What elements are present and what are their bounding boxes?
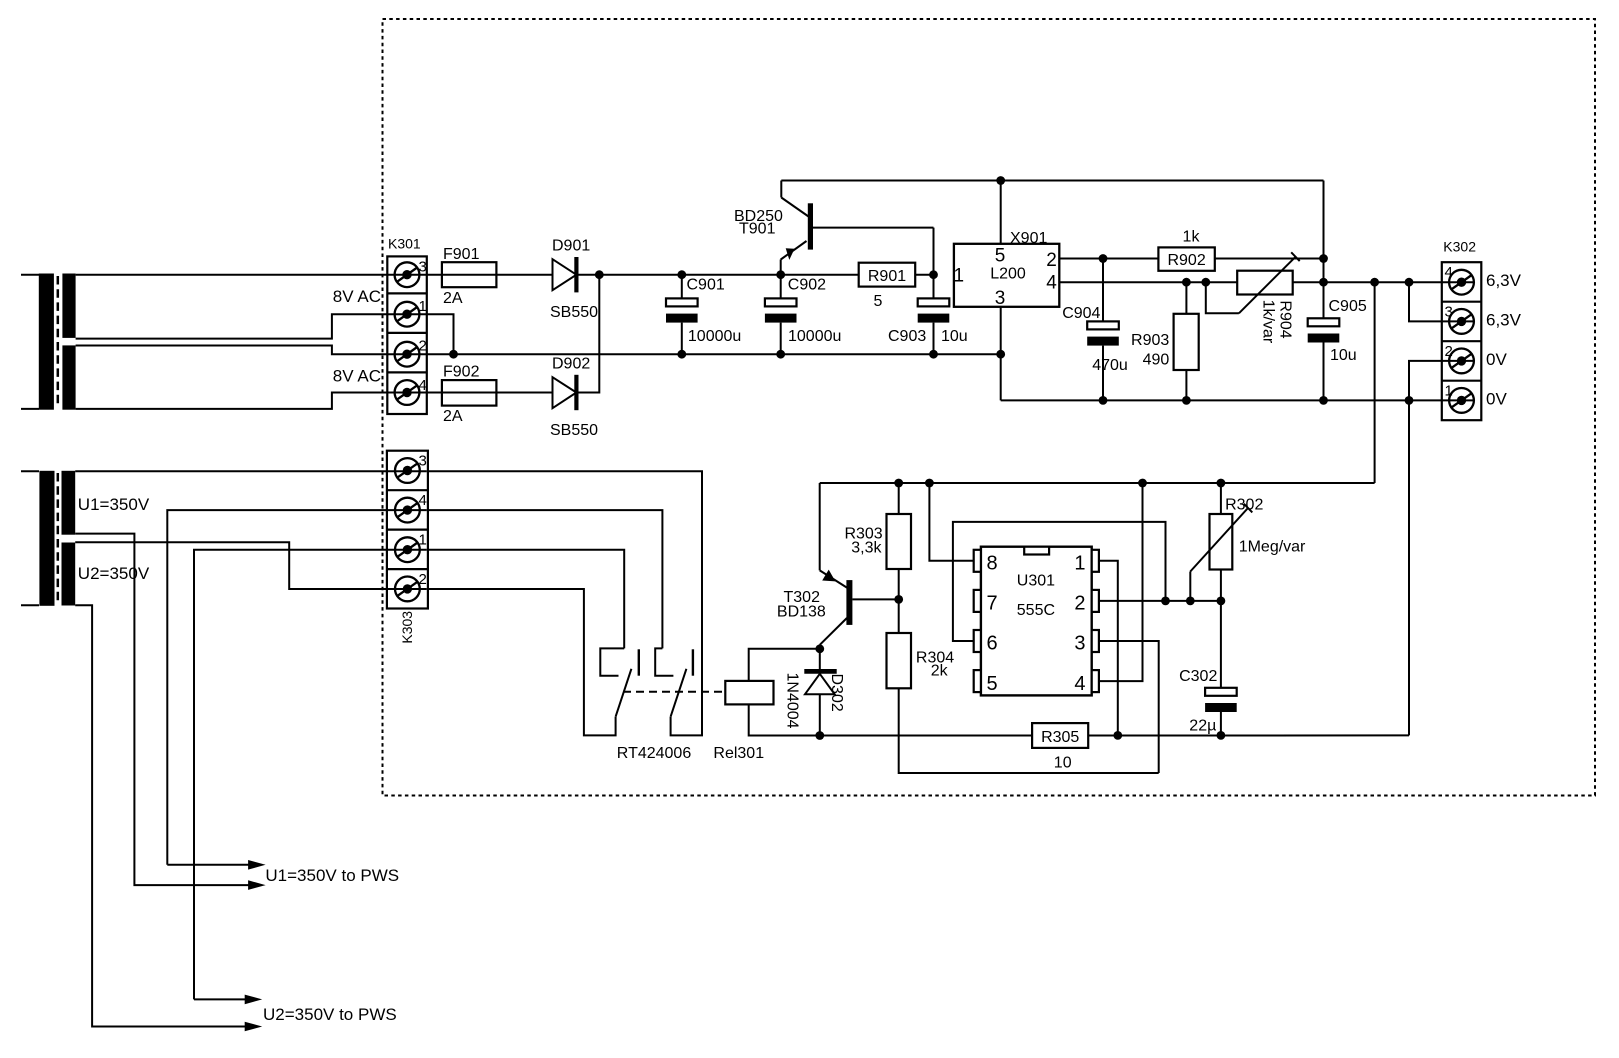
wire R302 wiper tie down xyxy=(1189,572,1191,601)
svg-text:1k/var: 1k/var xyxy=(1260,300,1277,344)
svg-text:10000u: 10000u xyxy=(688,328,741,345)
transistor T901 collector diagonal xyxy=(781,198,808,217)
svg-text:U2=350V to PWS: U2=350V to PWS xyxy=(263,1005,397,1024)
svg-text:10u: 10u xyxy=(1330,347,1357,364)
svg-text:3: 3 xyxy=(419,258,427,275)
terminal block K302 body xyxy=(1442,262,1482,420)
resistor R302 body (variable) xyxy=(1210,514,1233,570)
wire L200 pin5 to top rail xyxy=(1000,181,1002,244)
svg-text:6: 6 xyxy=(987,633,998,655)
svg-text:5: 5 xyxy=(987,673,998,695)
svg-text:8V AC: 8V AC xyxy=(333,367,381,386)
node C302 bottom on lower rail xyxy=(1217,731,1226,740)
svg-text:1k: 1k xyxy=(1183,229,1201,246)
svg-text:4: 4 xyxy=(419,492,427,509)
K301 screw terminal 4 xyxy=(395,380,420,405)
svg-text:4: 4 xyxy=(1074,673,1085,695)
board outline (dotted border) xyxy=(383,19,1596,796)
wire C901 top lead xyxy=(681,275,683,299)
svg-text:2: 2 xyxy=(1046,250,1057,271)
svg-text:2A: 2A xyxy=(443,408,463,425)
svg-text:470u: 470u xyxy=(1092,357,1128,374)
wire K301-1 to K301-2 jumper xyxy=(427,314,454,354)
transformer T2 core xyxy=(57,473,60,603)
node L200 pin5 on top rail xyxy=(996,176,1005,185)
svg-text:490: 490 xyxy=(1143,351,1170,368)
wire T2 primary top stub xyxy=(21,470,39,472)
transformer T1 core xyxy=(57,276,60,407)
svg-text:U1=350V to PWS: U1=350V to PWS xyxy=(265,866,399,885)
relay contact 1 lever xyxy=(616,669,632,717)
wire R303 top lead xyxy=(898,483,900,514)
svg-text:1: 1 xyxy=(419,532,427,549)
node T302 base junction xyxy=(894,595,903,604)
relay contact 2 lever xyxy=(671,669,687,717)
svg-text:1: 1 xyxy=(1445,383,1453,400)
node C904 top on pin2 wire xyxy=(1099,254,1108,263)
node C905 bottom on 0V rail xyxy=(1319,396,1328,405)
wire to U2 arrow 3 xyxy=(194,998,246,1000)
K303 screw terminal 2 xyxy=(395,577,420,602)
svg-text:3: 3 xyxy=(419,453,427,470)
diode D902 xyxy=(553,375,577,410)
wire R302 bottom lead xyxy=(1220,570,1222,601)
wire T901 collector to top rail xyxy=(780,181,782,198)
K303 screw terminal 4 xyxy=(395,498,420,523)
wire T901 base horizontal xyxy=(813,227,934,229)
node U301 pin4 feed xyxy=(1138,479,1147,488)
node junction K301-2 rail xyxy=(449,350,458,359)
U301 pin 8 stub xyxy=(974,550,981,572)
node C902 top / T901 emitter xyxy=(776,270,785,279)
U301 notch xyxy=(1024,547,1049,555)
wire U1 winding bottom down to PWS arrow 2 xyxy=(75,534,249,886)
U301 pin 4 stub xyxy=(1092,670,1099,692)
svg-text:1: 1 xyxy=(419,298,427,315)
svg-text:3: 3 xyxy=(1074,633,1085,655)
svg-text:22µ: 22µ xyxy=(1189,718,1216,735)
svg-text:R903: R903 xyxy=(1131,332,1169,349)
svg-text:K302: K302 xyxy=(1443,239,1476,255)
wire 0V out rail to K302-1 xyxy=(1001,399,1474,401)
wire R902 to output vertical xyxy=(1215,258,1324,260)
regulator U X901 L200 body xyxy=(954,244,1059,307)
resistor R304 body xyxy=(887,633,912,688)
svg-text:D902: D902 xyxy=(552,356,590,373)
wire K303-1 to relay contact 1 fixed xyxy=(428,550,624,649)
K301 screw terminal 1 xyxy=(395,302,420,327)
wire top boost rail xyxy=(781,180,1323,182)
svg-text:3,3k: 3,3k xyxy=(851,539,882,556)
wire T1 primary bottom stub xyxy=(21,408,39,410)
wire L200 pin2 to R902 xyxy=(1059,258,1158,260)
diode D901 xyxy=(553,257,577,292)
diode D302 triangle xyxy=(805,674,835,694)
wire T1 sec2 top to K301-2 xyxy=(76,346,427,355)
wire +6.3V down to timer rail xyxy=(1374,282,1376,483)
arrow U1 out 1 xyxy=(248,860,266,870)
node C901 top xyxy=(677,270,686,279)
svg-text:3: 3 xyxy=(995,288,1006,309)
wire D902 cathode up to +rail xyxy=(576,275,599,393)
svg-text:R305: R305 xyxy=(1041,729,1079,746)
svg-text:C902: C902 xyxy=(788,277,826,294)
svg-text:SB550: SB550 xyxy=(550,304,598,321)
node T302 collector / coil / D302 xyxy=(815,644,824,653)
svg-text:U1=350V: U1=350V xyxy=(78,495,150,514)
svg-text:R302: R302 xyxy=(1225,497,1263,514)
wire T2 sec1 top to K303-3 xyxy=(75,470,427,472)
svg-text:U301: U301 xyxy=(1017,572,1055,589)
K302 divider 1 xyxy=(1442,301,1482,303)
wire C902 top lead xyxy=(780,275,782,299)
arrow U2 out 2 xyxy=(245,1022,263,1032)
wire U301 pin4 to +rail xyxy=(1099,483,1143,681)
svg-text:R902: R902 xyxy=(1167,252,1205,269)
wire T302 collector down xyxy=(819,645,821,649)
wire lower rail left part xyxy=(774,735,1033,737)
svg-text:6,3V: 6,3V xyxy=(1486,310,1522,329)
capacitor C904 xyxy=(1087,321,1119,345)
wire K303-4 to relay contact 2 fixed xyxy=(428,510,663,648)
K303 divider 1 xyxy=(387,489,428,491)
capacitor C302 xyxy=(1205,688,1237,712)
node C903 bottom xyxy=(929,350,938,359)
svg-text:1N4004: 1N4004 xyxy=(784,673,801,729)
node R902 right xyxy=(1319,254,1328,263)
relay contact 2 open terminal bar xyxy=(692,649,694,675)
svg-text:2: 2 xyxy=(419,337,427,354)
svg-text:5: 5 xyxy=(995,245,1006,266)
node R901/C903/L200 pin1/T901 base xyxy=(929,270,938,279)
svg-text:2: 2 xyxy=(1445,343,1453,360)
wire D302 vertical xyxy=(819,649,821,736)
wire R302 top lead xyxy=(1220,483,1222,514)
wire T1 primary top stub xyxy=(21,274,39,276)
wire U2 winding bottom down to PWS arrow 4 xyxy=(75,605,245,1026)
R904 wiper arrow diagonal xyxy=(1239,257,1296,313)
node C902 bottom xyxy=(776,350,785,359)
wire R903 bottom lead xyxy=(1185,370,1187,400)
wire 0V down to lower rail xyxy=(1408,400,1410,735)
wire R904 right to output vertical xyxy=(1293,281,1324,283)
K302 divider 3 xyxy=(1442,380,1482,382)
K301 divider 2 xyxy=(387,332,427,334)
node C901 bottom xyxy=(677,350,686,359)
svg-text:F902: F902 xyxy=(443,364,480,381)
relay contact 1 fixed hook xyxy=(600,648,624,675)
svg-text:4: 4 xyxy=(1046,272,1057,293)
resistor R903 body xyxy=(1174,314,1199,370)
transistor T302 emitter arrow xyxy=(822,570,835,582)
wire R903 top lead xyxy=(1185,282,1187,314)
K301 screw terminal 2 xyxy=(395,342,420,367)
svg-text:5: 5 xyxy=(874,293,883,310)
node D302 anode on lower rail xyxy=(815,731,824,740)
node 6.3V branch to K302-3 xyxy=(1405,278,1414,287)
wire C903 top lead xyxy=(933,275,935,299)
node R904 right / 6.3V line xyxy=(1319,278,1328,287)
R904 wiper arrow head xyxy=(1291,252,1300,261)
wire U301 pin1 to lower rail xyxy=(1099,561,1118,736)
svg-text:C903: C903 xyxy=(888,328,926,345)
wire C904 bottom lead xyxy=(1102,346,1104,401)
resistor R902 body xyxy=(1158,247,1214,270)
K301 divider 1 xyxy=(387,292,427,294)
fuse F902 body xyxy=(442,380,497,406)
transformer T2 secondary winding 1 bar xyxy=(62,471,76,535)
svg-text:3: 3 xyxy=(1445,304,1453,321)
node rectifier output junction xyxy=(595,270,604,279)
U301 pin 2 stub xyxy=(1092,590,1099,612)
svg-text:C905: C905 xyxy=(1329,298,1367,315)
svg-text:T901: T901 xyxy=(739,221,776,238)
svg-text:L200: L200 xyxy=(990,266,1026,283)
node R903 top on pin4 wire xyxy=(1182,278,1191,287)
svg-text:0V: 0V xyxy=(1486,350,1507,369)
svg-text:4: 4 xyxy=(419,377,427,394)
capacitor C903 xyxy=(918,298,950,322)
svg-text:2k: 2k xyxy=(931,663,949,680)
svg-text:RT424006: RT424006 xyxy=(617,745,692,762)
wire 0V to K302-2 xyxy=(1409,361,1474,401)
K302 screw terminal 2 xyxy=(1449,349,1474,374)
terminal block K303 body xyxy=(387,451,428,609)
transformer T1 primary winding bar xyxy=(39,274,54,410)
svg-text:6,3V: 6,3V xyxy=(1486,271,1522,290)
transistor T302 emitter diagonal xyxy=(820,570,847,587)
svg-text:F901: F901 xyxy=(443,246,480,263)
wire U301 pin2 to R302/C302 node xyxy=(1099,600,1221,602)
transistor T302 collector diagonal xyxy=(820,618,847,645)
K302 screw terminal 1 xyxy=(1449,388,1474,413)
wire T2 primary bottom stub xyxy=(21,604,39,606)
wire R304 bottom to U301 pin3 net xyxy=(899,688,1159,773)
resistor R305 body xyxy=(1032,723,1088,748)
fuse F901 body xyxy=(442,262,497,287)
K302 screw terminal 4 xyxy=(1449,270,1474,295)
capacitor C901 xyxy=(666,298,698,322)
K303 screw terminal 1 xyxy=(395,537,420,562)
node R302 wiper on pin2 wire xyxy=(1186,597,1195,606)
relay actuation dashed link xyxy=(623,691,725,693)
wire K303-2 to relay contact 1 pivot xyxy=(428,589,616,735)
svg-text:BD138: BD138 xyxy=(777,604,826,621)
node R904 wiper tie on pin4 wire xyxy=(1201,278,1210,287)
svg-text:K301: K301 xyxy=(388,236,421,252)
node 0V branch xyxy=(1405,396,1414,405)
wire output vertical from top rail to C905 xyxy=(1323,181,1325,319)
transistor T901 emitter diagonal xyxy=(781,241,807,260)
wire T2 sec2 top to K303-2 xyxy=(75,542,427,589)
svg-text:7: 7 xyxy=(987,593,998,615)
svg-text:2: 2 xyxy=(1074,593,1085,615)
svg-text:8: 8 xyxy=(987,553,998,575)
wire L200 pin3 down to 0V out rail xyxy=(1000,307,1002,401)
wire timer section +rail xyxy=(820,482,1375,484)
wire C902 bottom lead xyxy=(780,323,782,355)
R302 wiper arrow head xyxy=(1244,504,1253,513)
arrow U2 out 1 xyxy=(245,995,263,1005)
svg-text:555C: 555C xyxy=(1017,602,1055,619)
svg-text:Rel301: Rel301 xyxy=(713,745,764,762)
transistor T901 emitter arrow xyxy=(786,248,795,260)
svg-text:4: 4 xyxy=(1445,264,1453,281)
capacitor C902 xyxy=(765,298,797,322)
transistor T302 base bar xyxy=(846,580,852,625)
node U301 pin1 on lower rail xyxy=(1113,731,1122,740)
wire U301 pin8 to +rail xyxy=(929,483,973,561)
R302 wiper arrow diagonal xyxy=(1190,508,1248,572)
terminal block K301 body xyxy=(387,256,427,414)
transformer T1 secondary winding 2 bar xyxy=(62,345,75,409)
K302 divider 2 xyxy=(1442,340,1482,342)
U301 pin 7 stub xyxy=(974,590,981,612)
wire T901 emitter down to +rail xyxy=(780,260,782,275)
node C904 bottom xyxy=(1099,396,1108,405)
wire T901 base down to node xyxy=(933,228,935,275)
node R903 bottom xyxy=(1182,396,1191,405)
wire R303 bottom to R304 top xyxy=(898,569,900,633)
wire 6.3V to K302-3 xyxy=(1409,282,1474,321)
transistor T901 base bar xyxy=(808,203,813,249)
node R302 bottom / C302 top xyxy=(1217,597,1226,606)
K303 screw terminal 3 xyxy=(395,458,420,483)
wire C903 bottom lead xyxy=(933,323,935,355)
svg-text:D302: D302 xyxy=(828,674,845,712)
svg-text:U2=350V: U2=350V xyxy=(78,564,150,583)
wire K303-3 to relay contact 2 pivot xyxy=(428,471,702,735)
U301 pin 3 stub xyxy=(1092,630,1099,652)
relay contact 2 fixed hook xyxy=(655,648,673,675)
node 6.3V branch to timer section xyxy=(1370,278,1379,287)
capacitor C905 xyxy=(1308,318,1340,342)
svg-text:K303: K303 xyxy=(399,611,415,644)
K303 divider 3 xyxy=(387,568,428,570)
svg-text:1: 1 xyxy=(1074,553,1085,575)
svg-text:X901: X901 xyxy=(1010,230,1047,247)
transformer T2 secondary winding 2 bar xyxy=(62,543,76,606)
diode D302 cathode bar xyxy=(804,669,836,674)
transformer T1 secondary winding 1 bar xyxy=(62,274,75,338)
wire U301 pin3 output down xyxy=(1099,641,1159,773)
svg-text:2: 2 xyxy=(419,571,427,588)
svg-text:C302: C302 xyxy=(1179,668,1217,685)
wire to U1 arrow 1 xyxy=(167,864,249,866)
transformer T2 primary winding bar xyxy=(39,471,54,606)
svg-text:10u: 10u xyxy=(941,328,968,345)
wire L200 pin4 to R904 xyxy=(1059,281,1237,283)
svg-text:R901: R901 xyxy=(868,268,906,285)
wire R904 wiper bottom link xyxy=(1206,282,1239,313)
svg-text:D901: D901 xyxy=(552,238,590,255)
wire T1 sec1 top to K301-3 / F901 xyxy=(76,274,553,276)
K301 screw terminal 3 xyxy=(395,262,420,287)
resistor R303 body xyxy=(887,514,912,569)
K301 divider 3 xyxy=(387,371,427,373)
node R302 top xyxy=(1217,479,1226,488)
wire D901 cathode to main +rail / R901 xyxy=(576,274,858,276)
wire T1 sec1 bottom to K301-1 xyxy=(76,314,427,338)
arrow U1 out 2 xyxy=(248,880,266,890)
resistor R901 body xyxy=(859,263,916,287)
wire lower rail right part xyxy=(1088,734,1409,736)
K303 divider 2 xyxy=(387,528,428,530)
node L200 pin3 / 0V rail xyxy=(996,350,1005,359)
svg-text:1Meg/var: 1Meg/var xyxy=(1239,539,1306,556)
K302 screw terminal 3 xyxy=(1449,309,1474,334)
resistor R904 body (variable) xyxy=(1237,271,1293,295)
wire C901 bottom lead xyxy=(681,323,683,355)
wire C905 bottom lead xyxy=(1323,343,1325,401)
wire Rel301 coil bottom to lower rail xyxy=(749,704,820,735)
wire Rel301 coil top to T302 collector node xyxy=(749,649,820,681)
svg-text:10000u: 10000u xyxy=(788,328,841,345)
node U301 pin8 feed xyxy=(925,479,934,488)
IC U301 555 body xyxy=(981,547,1092,696)
svg-text:2A: 2A xyxy=(443,290,463,307)
svg-text:SB550: SB550 xyxy=(550,422,598,439)
svg-text:C904: C904 xyxy=(1062,305,1100,322)
node R303 top xyxy=(894,479,903,488)
wire K303-4 feed / U1 arrow 1 xyxy=(167,510,427,865)
svg-text:C901: C901 xyxy=(687,277,725,294)
svg-text:8V AC: 8V AC xyxy=(333,287,381,306)
wire T302 base to divider xyxy=(852,598,898,600)
wire C904 top lead xyxy=(1102,259,1104,322)
svg-text:0V: 0V xyxy=(1486,389,1507,408)
wire 0V rail (upper section) xyxy=(427,353,1001,355)
svg-text:R904: R904 xyxy=(1277,300,1294,338)
svg-text:1: 1 xyxy=(954,266,965,287)
wire C302 top lead xyxy=(1220,601,1222,688)
relay contact 1 open terminal bar xyxy=(638,649,640,675)
U301 pin 6 stub xyxy=(974,630,981,652)
U301 pin 5 stub xyxy=(974,670,981,692)
wire K303-1 feed / U2 arrow 3 xyxy=(194,550,427,1000)
svg-text:10: 10 xyxy=(1054,754,1072,771)
wire T1 sec2 bottom to K301-4 / F902 xyxy=(76,393,553,409)
wire 6.3V line to K302-4 xyxy=(1324,281,1475,283)
relay coil Rel301 body xyxy=(725,681,773,705)
wire R901 to L200 pin1 xyxy=(915,274,933,276)
wire U301 pin6 to pin2 link xyxy=(953,522,1166,641)
wire T302 emitter from +6.3V rail xyxy=(819,483,821,570)
wire C302 bottom lead xyxy=(1220,712,1222,735)
U301 pin 1 stub xyxy=(1092,550,1099,572)
node pin6 link on pin2 wire xyxy=(1161,597,1170,606)
